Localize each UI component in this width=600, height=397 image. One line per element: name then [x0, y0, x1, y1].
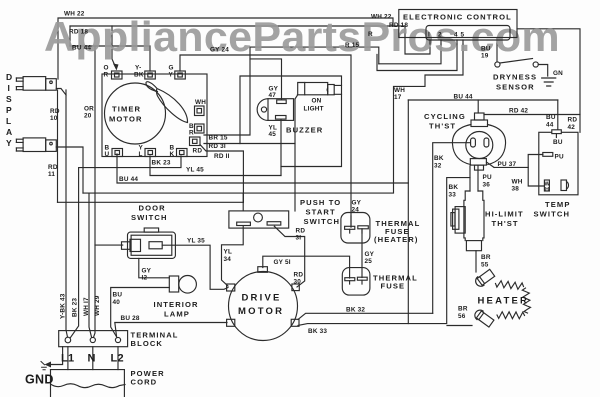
svg-text:GND: GND [25, 373, 54, 387]
svg-text:R: R [189, 130, 194, 137]
interior lamp [169, 276, 196, 294]
svg-text:Y-: Y- [135, 65, 141, 72]
wire YL45 [150, 156, 281, 176]
svg-text:I2: I2 [142, 275, 148, 282]
svg-text:DOOR: DOOR [139, 204, 166, 213]
svg-text:WH 22: WH 22 [371, 14, 392, 21]
svg-text:56: 56 [458, 313, 466, 320]
wire WH17 drop to push switch [242, 193, 244, 211]
electronic control pin stubs [430, 40, 463, 44]
svg-text:I: I [8, 83, 11, 93]
on-light body [295, 83, 334, 100]
svg-text:RD: RD [296, 228, 306, 235]
svg-text:RD: RD [193, 148, 203, 155]
wire BU44 long [117, 154, 408, 183]
svg-text:R: R [368, 31, 373, 38]
svg-text:WH I7: WH I7 [83, 297, 90, 316]
svg-text:HI-LIMIT: HI-LIMIT [485, 210, 524, 219]
svg-text:WH: WH [394, 87, 405, 94]
timer terminal B/R [195, 124, 205, 133]
wire RD42 [484, 114, 580, 116]
svg-text:START: START [306, 208, 336, 217]
svg-text:H: H [545, 187, 549, 193]
svg-text:DRIVE: DRIVE [242, 293, 282, 304]
wire plug1 to vertical jog [56, 89, 66, 96]
svg-text:RD 18: RD 18 [389, 22, 408, 29]
svg-text:BR: BR [458, 306, 468, 313]
svg-text:O: O [104, 65, 109, 72]
wire RD31 EC fanout [377, 44, 457, 71]
timer terminal B/K [177, 149, 188, 157]
svg-text:TH'ST: TH'ST [429, 122, 456, 131]
svg-text:GY 24: GY 24 [210, 47, 229, 54]
wire GY25 fuse1 to fuse2 [361, 229, 363, 278]
svg-text:33: 33 [449, 192, 457, 199]
svg-text:BU 44: BU 44 [454, 94, 473, 101]
wire BU19 EC stub [496, 38, 498, 62]
svg-text:S: S [6, 94, 12, 104]
wire BK32 horizontal to motor [298, 313, 433, 319]
svg-text:25: 25 [365, 258, 373, 265]
svg-text:24: 24 [352, 207, 360, 214]
rotated labels left column [60, 293, 102, 319]
svg-text:BU 44: BU 44 [72, 45, 91, 52]
svg-text:ELECTRONIC CONTROL: ELECTRONIC CONTROL [403, 13, 512, 22]
svg-text:U: U [105, 151, 110, 158]
electronic control connector strip [426, 26, 510, 41]
wire WH17 funnel to N [89, 193, 92, 337]
svg-text:RD: RD [568, 117, 578, 124]
heater connector upper BR55 [474, 269, 496, 289]
svg-text:WH: WH [195, 99, 206, 106]
svg-text:N: N [88, 353, 96, 365]
svg-text:OR: OR [84, 106, 94, 113]
svg-text:BK: BK [449, 184, 459, 191]
wire BR55 hi-limit to heater [475, 251, 477, 272]
svg-text:FUSE: FUSE [381, 282, 406, 291]
wire BU44 to cycling top [477, 100, 479, 113]
svg-text:GN: GN [553, 70, 563, 77]
svg-text:CORD: CORD [131, 378, 158, 387]
ground GND ticks [41, 362, 46, 370]
svg-text:BR: BR [481, 254, 491, 261]
svg-text:GY: GY [365, 251, 375, 258]
svg-text:WH 29: WH 29 [94, 295, 101, 316]
terminal block [59, 331, 128, 347]
timer terminal B/U [112, 149, 123, 157]
wire BU28 L2 to motor [115, 323, 227, 337]
display connector plug P2 [16, 138, 56, 152]
svg-text:44: 44 [546, 122, 554, 129]
svg-text:GY: GY [352, 200, 362, 207]
wire YL35 door switch to motor [162, 245, 228, 289]
svg-text:RD 3I: RD 3I [209, 143, 226, 150]
timer terminal WH [195, 106, 205, 116]
wire buzzer bottom riser [280, 120, 282, 176]
svg-text:RD 42: RD 42 [509, 108, 528, 115]
wire RD10 / Y-BK43 vertical display to L1 [66, 90, 68, 337]
svg-text:BK 23: BK 23 [72, 298, 79, 317]
svg-text:40: 40 [113, 299, 121, 306]
temp switch box [539, 130, 578, 195]
svg-text:BU 28: BU 28 [121, 315, 140, 322]
svg-text:RD II: RD II [214, 153, 230, 160]
wire y46 display to timer Y-BK [70, 46, 150, 71]
wire BR15 EC fanout [379, 44, 441, 64]
svg-text:TEMP: TEMP [545, 200, 571, 209]
svg-text:BK 23: BK 23 [152, 160, 171, 167]
wire WH22 top [58, 18, 393, 79]
wire GY51 motor to fuse2 [263, 256, 350, 278]
wire GY47 to buzzer top [250, 59, 282, 99]
svg-text:Y-BK 43: Y-BK 43 [60, 293, 67, 319]
svg-text:38: 38 [512, 186, 520, 193]
timer terminal O/R [112, 71, 123, 79]
svg-text:20: 20 [84, 113, 92, 120]
svg-text:LIGHT: LIGHT [304, 106, 324, 113]
svg-text:PUSH TO: PUSH TO [300, 198, 341, 207]
svg-text:YL 45: YL 45 [186, 167, 204, 174]
svg-text:11: 11 [48, 171, 55, 178]
svg-text:GY 5I: GY 5I [274, 259, 291, 266]
svg-text:R 15: R 15 [345, 42, 360, 49]
svg-text:Y: Y [169, 72, 174, 79]
svg-text:INTERIOR: INTERIOR [154, 300, 199, 309]
wire RD31 horizontal [204, 143, 295, 145]
timer motor circle [105, 83, 166, 144]
svg-text:G: G [169, 65, 174, 72]
heater element zigzag [496, 281, 524, 290]
push to start switch [229, 211, 289, 228]
cycling thermostat [452, 113, 505, 170]
wire BK33 [298, 178, 470, 326]
svg-text:4: 4 [454, 32, 458, 39]
svg-text:RD: RD [294, 272, 304, 279]
ground arrow at GND [45, 362, 52, 368]
svg-text:WH: WH [512, 179, 523, 186]
svg-text:SWITCH: SWITCH [131, 213, 168, 222]
svg-text:BLOCK: BLOCK [131, 339, 164, 348]
wire BK32 vertical [433, 143, 470, 314]
svg-text:BK: BK [434, 155, 444, 162]
svg-text:5: 5 [461, 32, 465, 39]
dryness sensor switch [495, 62, 539, 67]
svg-text:TIMER: TIMER [112, 105, 141, 114]
svg-text:GY: GY [142, 268, 152, 275]
svg-text:MOTOR: MOTOR [238, 306, 284, 317]
svg-text:HEATER: HEATER [478, 296, 530, 307]
timer cam follower [146, 82, 188, 123]
svg-text:RD 18: RD 18 [69, 29, 88, 36]
svg-text:SENSOR: SENSOR [496, 83, 535, 92]
svg-text:PU 37: PU 37 [498, 161, 517, 168]
svg-text:YL: YL [224, 249, 233, 256]
svg-text:BK 33: BK 33 [308, 328, 327, 335]
wire RD11 line3 to display [58, 201, 244, 203]
svg-text:RD: RD [48, 164, 58, 171]
svg-text:L: L [139, 151, 143, 158]
svg-text:CYCLING: CYCLING [424, 112, 466, 121]
svg-text:BUZZER: BUZZER [286, 126, 323, 135]
svg-text:(HEATER): (HEATER) [374, 235, 419, 244]
door switch [122, 228, 176, 258]
wire BR15 buzzer riser [204, 47, 379, 135]
thermal fuse heater [341, 213, 370, 244]
wire door switch left WH29 [95, 244, 123, 246]
svg-text:36: 36 [483, 182, 491, 189]
svg-text:BU: BU [113, 292, 123, 299]
svg-text:K: K [170, 151, 175, 158]
svg-text:17: 17 [394, 94, 402, 101]
timer terminal Y/L [145, 149, 156, 157]
svg-text:L: L [6, 116, 11, 126]
svg-text:BK: BK [134, 72, 144, 79]
svg-text:PU: PU [483, 174, 492, 181]
wire node riser to O/R timer terminal [112, 26, 116, 68]
wire RD11 from timer RD terminal [200, 145, 243, 203]
svg-text:WH 22: WH 22 [64, 11, 85, 18]
wire RD30 push switch to motor [274, 226, 304, 287]
svg-text:BU 44: BU 44 [119, 176, 138, 183]
ground GN symbol [542, 78, 556, 86]
wire BU40 lamp to L2 [111, 288, 170, 338]
svg-text:ON: ON [312, 98, 322, 105]
wire display lower riser [57, 90, 59, 202]
wire BU44 right run [408, 99, 558, 101]
wire BU44 to temp BU [557, 100, 559, 130]
timer terminal Y-BK [145, 71, 156, 79]
arrowhead into O/R terminal [113, 64, 119, 71]
svg-text:TH'ST: TH'ST [492, 219, 519, 228]
svg-text:34: 34 [224, 256, 232, 263]
svg-text:BK 32: BK 32 [346, 307, 365, 314]
wire YL34 push switch to motor [222, 226, 244, 286]
svg-text:D: D [6, 72, 12, 82]
wire power cord leads [68, 347, 118, 370]
wire terminal block ground [47, 347, 63, 365]
svg-text:L1: L1 [61, 353, 74, 365]
svg-text:2: 2 [438, 32, 442, 39]
wire dryness lever [500, 59, 533, 64]
svg-text:I: I [428, 32, 430, 39]
electronic control box [399, 10, 517, 38]
svg-text:BU: BU [546, 114, 556, 121]
timer box [102, 74, 207, 157]
svg-text:42: 42 [568, 124, 576, 131]
svg-text:47: 47 [269, 92, 277, 99]
timer terminal RD [190, 137, 201, 146]
svg-text:3I: 3I [296, 235, 302, 242]
svg-text:SWITCH: SWITCH [534, 210, 571, 219]
drive motor [227, 267, 300, 341]
wire GY12 door switch to lamp [139, 258, 170, 277]
wire RD18 display jog [69, 26, 71, 46]
buzzer body [257, 99, 293, 121]
svg-text:LAMP: LAMP [164, 310, 190, 319]
wire PU36 pair down to hi-limit [470, 166, 478, 191]
hi-limit thermostat [451, 191, 484, 251]
svg-text:45: 45 [269, 131, 277, 138]
wire on-light right prongs join [334, 85, 341, 94]
wire dryness GN [538, 65, 547, 77]
svg-text:L2: L2 [111, 353, 124, 365]
svg-text:SWITCH: SWITCH [304, 217, 341, 226]
svg-text:BU: BU [481, 46, 491, 53]
wire WH38 [528, 167, 544, 186]
wire WH17 long [83, 44, 463, 193]
svg-text:19: 19 [481, 53, 489, 60]
svg-text:A: A [6, 127, 12, 137]
timer terminal G/Y [175, 71, 186, 79]
svg-text:MOTOR: MOTOR [109, 115, 143, 124]
wire BU44 riser mid [407, 100, 409, 324]
svg-text:55: 55 [481, 262, 489, 269]
wire BR56 heater to BK33 [447, 325, 472, 327]
wire EC right to RD42 riser [517, 29, 580, 133]
svg-text:Y: Y [6, 138, 12, 148]
wire RD18 [70, 26, 430, 54]
wire PU37 [494, 155, 543, 168]
power cord [51, 370, 126, 397]
svg-text:YL 35: YL 35 [187, 238, 205, 245]
svg-text:DRYNESS: DRYNESS [493, 73, 537, 82]
wire GY24 [180, 55, 351, 227]
svg-text:10: 10 [50, 115, 58, 122]
wire on-light left drop RD31 [294, 99, 296, 211]
wire on-light loop riser [240, 76, 342, 167]
display connector plug P1 [16, 77, 56, 91]
heater connector lower BR56 [473, 308, 495, 328]
thermal fuse [342, 268, 370, 296]
svg-text:32: 32 [434, 163, 442, 170]
svg-text:R: R [104, 72, 109, 79]
wire OR20 / WH29 long vertical [94, 46, 95, 337]
svg-text:P: P [6, 105, 12, 115]
svg-text:RD: RD [50, 108, 60, 115]
svg-text:BU: BU [553, 139, 563, 146]
svg-text:BR 15: BR 15 [209, 135, 228, 142]
svg-text:PU: PU [555, 154, 564, 161]
wire display plug2 to line3 riser [56, 147, 83, 193]
display vertical letters [6, 72, 12, 148]
wire BK23 [71, 156, 182, 338]
svg-text:30: 30 [294, 279, 302, 286]
